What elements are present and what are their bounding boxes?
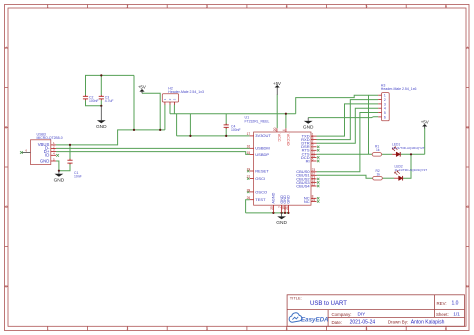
svg-text:OSCI: OSCI	[255, 176, 265, 181]
wire C2/C3 top rail	[86, 75, 135, 95]
connector H2 body	[162, 94, 178, 102]
svg-text:Drawn By:: Drawn By:	[388, 320, 408, 325]
pin 26 stub	[250, 199, 254, 201]
EasyEDA logo	[289, 313, 329, 324]
svg-text:3: 3	[206, 5, 208, 9]
node C2/C3 bottom GND	[100, 105, 102, 107]
+5V flag above U1	[276, 87, 278, 95]
node GND pin18 on ground bus	[284, 212, 286, 214]
pin 7 stub GND	[281, 205, 283, 213]
LED1 triangle and bar	[396, 152, 400, 157]
node C3 top	[100, 74, 102, 76]
svg-text:1: 1	[47, 327, 49, 331]
connector H3 body	[382, 93, 390, 121]
svg-text:6: 6	[445, 327, 447, 331]
svg-text:Header-Male 2.54_1x6: Header-Male 2.54_1x6	[381, 87, 417, 91]
svg-text:16: 16	[247, 145, 251, 149]
wire TEST to ground bus	[246, 200, 250, 213]
pin 5 stub H3	[378, 112, 381, 114]
svg-text:GND: GND	[40, 158, 50, 163]
no-connect X ID	[56, 154, 59, 157]
pin 3 stub H2	[173, 102, 175, 105]
svg-text:2021-05-24: 2021-05-24	[350, 320, 376, 326]
pin 10 stub DCD	[311, 156, 317, 158]
wire GND flag to H3 pin6	[308, 116, 378, 119]
wire CTS to R1	[317, 153, 373, 155]
no-connect X shield	[20, 151, 23, 154]
pin 19 stub	[250, 170, 254, 172]
pin names right	[296, 134, 310, 204]
wire R1 to LED1	[382, 153, 393, 155]
svg-text:6: 6	[312, 157, 314, 161]
op-amp U1 body	[254, 132, 311, 205]
svg-text:+5V: +5V	[421, 120, 429, 125]
pin shield stub	[22, 151, 31, 153]
svg-text:TITLE:: TITLE:	[290, 295, 302, 300]
svg-text:CBUS4: CBUS4	[296, 183, 310, 188]
svg-text:5: 5	[365, 327, 367, 331]
ground flag under C2 C3	[96, 106, 107, 130]
svg-text:GND: GND	[303, 125, 314, 131]
svg-text:25: 25	[270, 206, 274, 210]
svg-text:RESET: RESET	[255, 168, 269, 173]
wire C4 bottom lead column	[225, 128, 227, 136]
wire USB GND pin to GND node	[56, 161, 59, 171]
wire CBUS1 to R2	[317, 175, 373, 178]
svg-text:3V3OUT: 3V3OUT	[255, 133, 271, 138]
wire H2 pin2 to VCC rail	[169, 105, 171, 114]
wire C1 top column	[69, 145, 71, 160]
svg-text:VCCIO: VCCIO	[286, 134, 290, 146]
pin 5 stub RXD	[311, 139, 317, 141]
svg-text:1k: 1k	[377, 173, 381, 177]
wire V5 from +5V rail to R1 row	[368, 95, 370, 154]
svg-text:EasyEDA: EasyEDA	[301, 317, 329, 324]
pin GND stub	[51, 160, 56, 162]
wire VBUS from USB to riser	[56, 130, 165, 145]
pin 2 stub DTR	[311, 142, 317, 144]
svg-text:GND: GND	[276, 220, 287, 226]
svg-text:GND: GND	[287, 195, 291, 204]
pin 23 stub CBUS0	[311, 171, 317, 173]
svg-text:1/1: 1/1	[453, 312, 460, 317]
wire 3V3OUT row	[177, 135, 250, 137]
wire vertical Vb	[189, 114, 191, 136]
svg-text:6: 6	[445, 5, 447, 9]
svg-text:Company:: Company:	[332, 312, 352, 317]
pin 16 stub	[250, 147, 254, 149]
wire chip ground bus	[246, 212, 289, 214]
pin 11 stub CTS	[311, 153, 317, 155]
pin 6 stub H3	[378, 116, 381, 118]
node Va on VBUS rail	[133, 129, 135, 131]
pin 28 stub	[250, 191, 254, 193]
svg-text:2: 2	[126, 5, 128, 9]
wire C1 bottom to GND node	[59, 164, 70, 171]
svg-text:100nF: 100nF	[231, 128, 241, 132]
wire CBUS0 to H3 pin5	[317, 113, 379, 172]
node Vb on 3V3 row	[189, 135, 191, 137]
pin 17 stub	[250, 135, 254, 137]
+5V flag near LEDs	[424, 126, 426, 128]
pin 20 stub VCC	[276, 128, 278, 132]
wire +5V flag 2 down to VCC pin	[276, 95, 278, 129]
wire LED2 branch drop	[403, 154, 411, 178]
node USB GND / C1	[58, 170, 60, 172]
node AGND on ground bus	[272, 212, 274, 214]
node GND pin21 on ground bus	[287, 212, 289, 214]
svg-text:FT232RL_REEL: FT232RL_REEL	[245, 120, 270, 124]
svg-text:USBDM: USBDM	[255, 146, 269, 151]
svg-text:1k: 1k	[376, 148, 380, 152]
svg-text:VCC: VCC	[277, 134, 281, 142]
pin names left	[255, 133, 271, 202]
node GND pin7 on ground bus	[281, 212, 283, 214]
ground flag under USB	[54, 171, 65, 184]
pin 2 stub H2	[169, 102, 171, 105]
svg-text:Date:: Date:	[332, 320, 343, 325]
pin ID stub	[51, 154, 56, 156]
svg-text:NC: NC	[304, 199, 310, 204]
svg-text:Anton Kalapish: Anton Kalapish	[411, 320, 445, 326]
svg-text:+5V: +5V	[138, 85, 146, 90]
pin D+ stub	[51, 151, 56, 153]
svg-text:USB to UART: USB to UART	[310, 301, 347, 307]
svg-text:4: 4	[286, 327, 288, 331]
svg-text:GND: GND	[96, 124, 107, 130]
svg-text:TEST: TEST	[255, 197, 266, 202]
svg-text:MICRO-QT2B5-0: MICRO-QT2B5-0	[37, 136, 63, 140]
wire VCC rail up to +5V header rail	[296, 95, 379, 114]
svg-text:4: 4	[286, 5, 288, 9]
svg-text:100nF: 100nF	[89, 99, 99, 103]
svg-text:21: 21	[285, 206, 289, 210]
svg-text:28: 28	[247, 188, 251, 192]
node VCCIO on VCC rail	[285, 113, 287, 115]
svg-text:+5V: +5V	[273, 81, 281, 86]
svg-text:24: 24	[312, 198, 316, 202]
pin 27 stub	[250, 178, 254, 180]
svg-text:5: 5	[365, 5, 367, 9]
svg-text:11-21/T3D-AQ1R1QY2T: 11-21/T3D-AQ1R1QY2T	[392, 146, 425, 150]
pin numbers right	[312, 133, 316, 202]
svg-text:10nF: 10nF	[74, 175, 82, 179]
pin 8 stub NC	[311, 197, 317, 199]
wire RXD to H3 pin2	[317, 100, 379, 140]
pin 3 stub H3	[378, 103, 381, 105]
node +5V riser on VBUS rail	[159, 129, 161, 131]
wire DTR to H3 pin4	[317, 108, 379, 143]
svg-text:26: 26	[247, 196, 251, 200]
wire C4 top lead column	[225, 114, 227, 125]
svg-text:1: 1	[384, 94, 386, 98]
svg-text:4.7uF: 4.7uF	[105, 99, 114, 103]
wire VCCIO drop	[285, 114, 287, 129]
pin 1 stub TXD	[311, 135, 317, 137]
svg-text:2: 2	[126, 327, 128, 331]
svg-text:GND: GND	[54, 178, 65, 184]
LED2 arrows	[395, 172, 398, 175]
svg-text:DIY: DIY	[358, 312, 366, 317]
svg-text:USBDP: USBDP	[255, 152, 269, 157]
svg-text:12: 12	[312, 182, 316, 186]
svg-text:17: 17	[247, 132, 251, 136]
pin 3 stub RTS	[311, 149, 317, 151]
pin 24 stub NC	[311, 200, 317, 202]
node C4 on 3V3 row	[225, 135, 227, 137]
pin 21 stub GND	[287, 205, 289, 213]
svg-text:ID: ID	[45, 153, 49, 158]
ground flag near H3 pin6	[303, 118, 314, 131]
wire USB D- to USBDM	[56, 147, 250, 149]
svg-text:20: 20	[273, 127, 277, 131]
pin 1 stub H2	[164, 102, 166, 105]
wire LED1 to +5V node	[401, 153, 425, 155]
svg-text:Sheet:: Sheet:	[436, 312, 449, 317]
svg-text:1: 1	[47, 5, 49, 9]
pin D- stub	[51, 147, 56, 149]
LED1 arrows	[392, 148, 395, 151]
pin 12 stub CBUS4	[311, 185, 317, 187]
svg-text:27: 27	[247, 175, 251, 179]
no-connect X marks right pins	[317, 146, 319, 203]
pin 22 stub CBUS1	[311, 174, 317, 176]
svg-text:5: 5	[384, 111, 386, 115]
svg-text:6: 6	[384, 115, 386, 119]
wire H2 pin1 column	[164, 105, 166, 130]
pin 1 stub H3	[378, 94, 381, 96]
+5V flag near H2	[141, 91, 143, 94]
pin numbers left	[247, 132, 251, 200]
svg-text:1.0: 1.0	[452, 300, 459, 306]
svg-text:REV:: REV:	[437, 301, 447, 306]
pin 4 stub VCCIO	[285, 128, 287, 132]
wire USB D+ to USBDP	[56, 152, 250, 155]
pin VBUS stub	[51, 144, 56, 146]
wire +5V flag 3 stem	[424, 128, 426, 155]
wire vertical Va to VBUS rail	[133, 75, 135, 129]
pin 15 stub	[250, 153, 254, 155]
pin 6 stub RI	[311, 160, 317, 162]
wire R2 to LED2	[382, 177, 394, 179]
svg-text:RI: RI	[306, 158, 310, 163]
wire +5V flag 1 to VBUS rail	[142, 93, 160, 130]
pin 13 stub CBUS2	[311, 178, 317, 180]
svg-text:19: 19	[247, 167, 251, 171]
svg-text:11-21/T3D-AQ1R1QY2T: 11-21/T3D-AQ1R1QY2T	[395, 168, 428, 172]
wire C2/C3 bottom to GND node	[86, 100, 102, 106]
svg-text:3: 3	[206, 327, 208, 331]
svg-text:OSCO: OSCO	[255, 189, 267, 194]
svg-text:AGND: AGND	[272, 192, 276, 203]
pin 9 stub DSR	[311, 146, 317, 148]
pin 2 stub H3	[378, 99, 381, 101]
wire TXD to H3 pin3	[317, 104, 379, 136]
ground flag under U1	[276, 213, 287, 226]
svg-text:15: 15	[247, 151, 251, 155]
pin 4 stub H3	[378, 107, 381, 109]
svg-text:4: 4	[282, 129, 286, 131]
pin 25 stub AGND	[272, 205, 274, 213]
LED2 triangle and bar	[399, 176, 403, 181]
node VBUS / C1	[69, 144, 71, 146]
wire riser rail to 3V3 row	[176, 114, 178, 136]
no-connect X marks left pins	[247, 170, 249, 193]
wire H2 pin3 column	[173, 105, 175, 114]
pin 14 stub CBUS3	[311, 181, 317, 183]
wire VCC rail	[170, 113, 296, 115]
pin 18 stub GND	[284, 205, 286, 213]
node LED branch on +5V row	[410, 153, 412, 155]
USB3 MICRO-QT2B5-0 body	[31, 140, 51, 165]
svg-text:Header-Male 2.54_1x3: Header-Male 2.54_1x3	[168, 90, 204, 94]
